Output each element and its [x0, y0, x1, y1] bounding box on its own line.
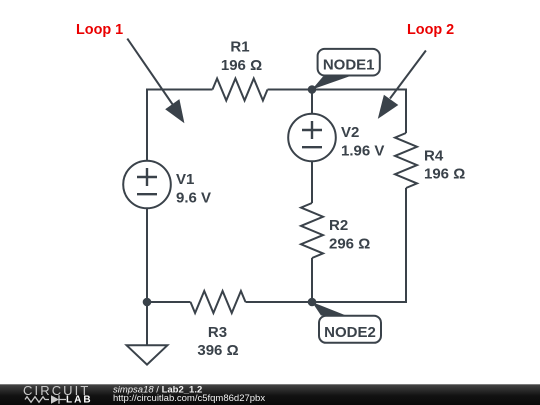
- svg-text:R3: R3: [208, 324, 227, 341]
- svg-text:R1: R1: [230, 39, 249, 56]
- wire: top-right segment with right corner: [268, 90, 407, 134]
- wire: middle stub from NODE1 to V2: [311, 90, 313, 114]
- svg-text:LAB: LAB: [66, 395, 93, 405]
- svg-text:NODE2: NODE2: [324, 324, 376, 341]
- junction dot at NODE2: [308, 298, 317, 307]
- wire: bottom-left segment up to V1: [147, 208, 191, 302]
- resistor R2: [301, 203, 370, 258]
- annotation Loop 2: [378, 22, 454, 119]
- node NODE1: [312, 49, 380, 90]
- node NODE2: [312, 302, 381, 343]
- ground: [127, 345, 168, 364]
- wire: top-left segment with left corner: [147, 90, 213, 161]
- resistor R4: [395, 133, 465, 188]
- wire: ground branch: [146, 302, 148, 345]
- svg-text:Loop 2: Loop 2: [407, 22, 454, 38]
- svg-text:R4: R4: [424, 147, 444, 164]
- svg-text:V2: V2: [341, 124, 359, 141]
- svg-text:9.6 V: 9.6 V: [176, 189, 211, 206]
- annotation Loop 1: [76, 22, 184, 123]
- svg-text:396 Ω: 396 Ω: [197, 342, 238, 359]
- wire: middle segment R2 to NODE2: [311, 258, 313, 302]
- wire: middle segment V2 to R2: [311, 161, 313, 203]
- resistor R3: [191, 291, 246, 359]
- svg-text:196 Ω: 196 Ω: [221, 57, 262, 74]
- svg-text:1.96 V: 1.96 V: [341, 142, 384, 159]
- voltage source V2: [288, 114, 384, 162]
- svg-text:NODE1: NODE1: [323, 57, 375, 74]
- resistor R1: [213, 39, 268, 101]
- junction dot at NODE1: [308, 85, 317, 94]
- footer title text: [113, 384, 265, 404]
- footer logo CIRCUIT LAB: [23, 383, 93, 405]
- svg-text:196 Ω: 196 Ω: [424, 166, 465, 183]
- svg-text:V1: V1: [176, 171, 194, 188]
- voltage source V1: [123, 161, 211, 209]
- svg-text:296 Ω: 296 Ω: [329, 235, 370, 252]
- svg-text:Loop 1: Loop 1: [76, 22, 123, 38]
- svg-text:http://circuitlab.com/c5fqm86d: http://circuitlab.com/c5fqm86d27pbx: [113, 393, 265, 404]
- footer bar: [0, 384, 540, 405]
- svg-text:R2: R2: [329, 217, 348, 234]
- junction dot at ground tee: [143, 298, 152, 307]
- wire: right-bottom segment with bottom-right corner: [246, 188, 407, 302]
